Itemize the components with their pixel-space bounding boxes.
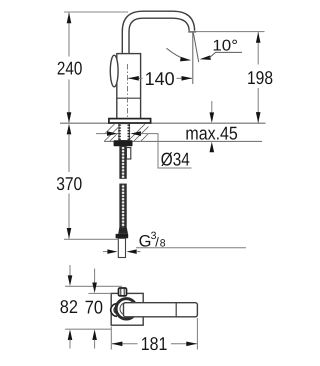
- spout tube inner: [129, 18, 189, 54]
- dimension 198: [257, 32, 259, 123]
- dimension 70: [94, 269, 96, 283]
- dimension max.45: [211, 101, 213, 113]
- angle leader with arrow (right of 10deg): [200, 55, 211, 60]
- svg-text:8: 8: [160, 238, 166, 250]
- locknut under deck: [114, 140, 133, 146]
- spout outlet vertical reference line: [192, 32, 194, 84]
- dimension G3/8: [103, 251, 108, 253]
- lever handle (side view): [110, 55, 118, 87]
- spout tube outer: [122, 11, 194, 54]
- extension line 82 top: [65, 285, 122, 287]
- svg-text:G: G: [139, 233, 152, 251]
- svg-text:370: 370: [56, 173, 82, 194]
- dimension diameter 34: [96, 133, 108, 135]
- extension line 70 top: [89, 292, 112, 294]
- dimension 181: [110, 327, 112, 350]
- braided hose (upper part): [120, 146, 127, 178]
- angle arc with arrow (left of 10deg): [167, 48, 187, 59]
- extension line top of spout (240 upper ref): [64, 11, 128, 13]
- svg-text:max.45: max.45: [185, 122, 237, 143]
- svg-text:181: 181: [141, 333, 168, 354]
- G3/8 connection tube: [118, 238, 125, 257]
- deck cross-section hatch right: [130, 124, 149, 141]
- svg-text:198: 198: [247, 67, 273, 88]
- deck cross-section hatch left: [105, 124, 119, 141]
- left knob (top view): [111, 304, 117, 317]
- hose end nut: [116, 234, 129, 238]
- dimension 240: [68, 13, 70, 123]
- svg-text:Ø34: Ø34: [161, 148, 190, 169]
- spout 10 degree axis line: [193, 33, 198, 62]
- base flange: [109, 119, 151, 123]
- square body (top view): [111, 293, 143, 325]
- svg-text:10°: 10°: [212, 38, 238, 55]
- deck bottom line / max.45 underline: [104, 140, 262, 142]
- svg-text:140: 140: [145, 68, 175, 89]
- body joint line: [117, 97, 141, 99]
- lever joint line: [175, 303, 177, 317]
- svg-text:82: 82: [60, 296, 78, 317]
- lever bar (top view): [124, 303, 198, 317]
- cartridge ring (top view): [116, 299, 136, 319]
- dimension 140: [128, 77, 192, 79]
- extension line hose bottom (370 lower ref): [64, 238, 118, 240]
- svg-text:/: /: [155, 235, 159, 250]
- braided hose (lower part after break): [120, 184, 127, 228]
- extension line bottom common: [65, 328, 111, 330]
- extension line spout outlet to 198: [196, 31, 265, 33]
- svg-text:240: 240: [57, 57, 82, 78]
- hose clip: [126, 148, 130, 159]
- threaded shank: [119, 124, 129, 141]
- spout cross-section notch: [119, 288, 127, 296]
- deck / mounting surface line: [60, 122, 266, 124]
- dimension 82: [69, 265, 71, 276]
- body center line (dash-dot): [127, 64, 129, 139]
- faucet body: [117, 54, 141, 119]
- dimension 370: [68, 135, 70, 239]
- hose end taper: [118, 228, 128, 234]
- svg-text:70: 70: [85, 297, 103, 318]
- spout outlet face: [188, 31, 196, 33]
